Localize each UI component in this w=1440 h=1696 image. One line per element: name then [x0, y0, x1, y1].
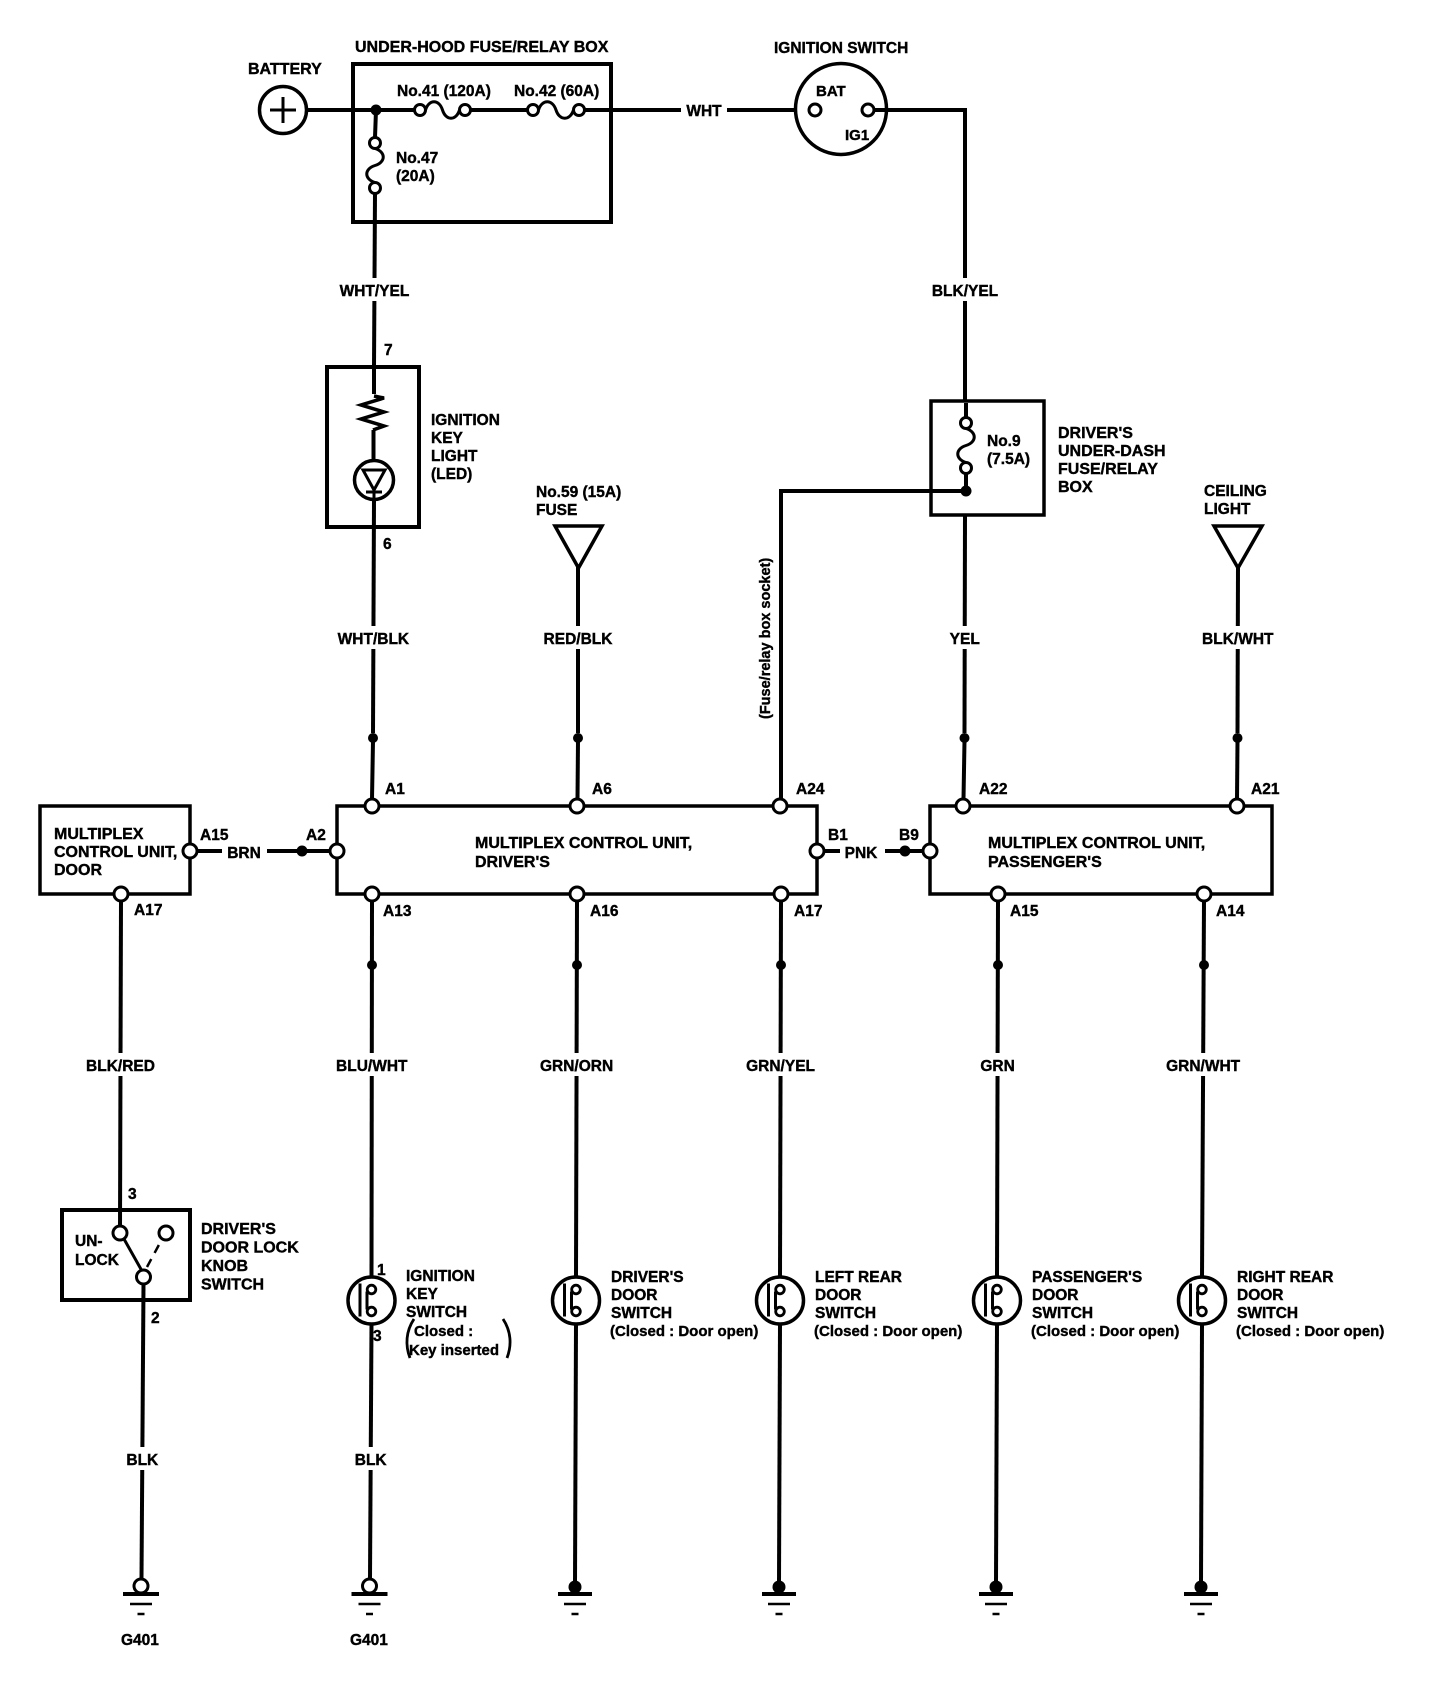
svg-text:A15: A15 — [1010, 903, 1039, 920]
svg-text:(Fuse/relay box socket): (Fuse/relay box socket) — [758, 558, 774, 719]
svg-text:BATTERY: BATTERY — [248, 61, 322, 78]
terminal A22 — [956, 781, 1007, 813]
svg-text:2: 2 — [151, 1310, 160, 1327]
svg-text:A17: A17 — [794, 903, 822, 920]
svg-text:IGNITION: IGNITION — [406, 1268, 475, 1285]
node on PNK wire — [900, 846, 911, 857]
svg-text:GRN: GRN — [980, 1058, 1014, 1075]
svg-text:(7.5A): (7.5A) — [987, 451, 1030, 468]
ignition key light box — [327, 342, 500, 527]
node on BRN wire — [297, 846, 308, 857]
node battery junction — [371, 105, 382, 116]
svg-text:A2: A2 — [306, 827, 326, 844]
node on RED/BLK wire — [573, 733, 583, 743]
ignition key switch — [348, 1262, 510, 1359]
ground (passenger's door switch) — [979, 1581, 1013, 1615]
svg-text:B9: B9 — [899, 827, 919, 844]
driver's door lock knob switch — [62, 1186, 299, 1327]
wire BLK (lock knob to ground) — [126, 1284, 159, 1578]
under-hood fuse/relay box — [353, 39, 611, 222]
svg-text:WHT: WHT — [686, 103, 722, 120]
LED (key light) — [355, 430, 394, 500]
svg-text:MULTIPLEX: MULTIPLEX — [54, 826, 144, 843]
svg-text:No.9: No.9 — [987, 433, 1021, 450]
fuse No.59 (15A) — [536, 484, 621, 568]
svg-text:KNOB: KNOB — [201, 1258, 248, 1275]
svg-text:A14: A14 — [1216, 903, 1245, 920]
svg-text:GRN/WHT: GRN/WHT — [1166, 1058, 1241, 1075]
wire BLK/RED — [86, 901, 155, 1227]
svg-text:DOOR: DOOR — [1032, 1287, 1079, 1304]
node on GRN/ORN wire — [572, 960, 582, 970]
svg-text:SWITCH: SWITCH — [1032, 1305, 1093, 1322]
ground G401 (key switch) — [350, 1579, 388, 1649]
node on GRN/YEL wire — [776, 960, 786, 970]
svg-text:CEILING: CEILING — [1204, 483, 1267, 500]
svg-text:6: 6 — [383, 536, 392, 553]
svg-text:G401: G401 — [121, 1632, 159, 1649]
terminal A17 (driver's) — [774, 887, 822, 920]
svg-text:GRN/ORN: GRN/ORN — [540, 1058, 613, 1075]
battery — [248, 61, 322, 134]
ground (left rear door switch) — [762, 1581, 796, 1615]
svg-text:WHT/BLK: WHT/BLK — [338, 631, 410, 648]
svg-text:KEY: KEY — [431, 430, 464, 447]
svg-text:(Closed : Door open): (Closed : Door open) — [1236, 1323, 1384, 1340]
svg-text:IGNITION SWITCH: IGNITION SWITCH — [774, 40, 908, 57]
svg-text:No.41 (120A): No.41 (120A) — [397, 83, 491, 100]
svg-text:FUSE/RELAY: FUSE/RELAY — [1058, 461, 1158, 478]
svg-text:A22: A22 — [979, 781, 1007, 798]
terminal A17 (door unit) — [114, 887, 162, 919]
svg-text:BLK: BLK — [126, 1452, 159, 1469]
fuse No.42 (60A) — [514, 83, 599, 118]
svg-text:(Closed : Door open): (Closed : Door open) — [1031, 1323, 1179, 1340]
terminal A13 — [365, 887, 412, 920]
svg-text:SWITCH: SWITCH — [815, 1305, 876, 1322]
svg-text:MULTIPLEX CONTROL UNIT,: MULTIPLEX CONTROL UNIT, — [475, 835, 692, 852]
wire BRN — [197, 845, 330, 862]
svg-text:DOOR: DOOR — [611, 1287, 658, 1304]
svg-text:GRN/YEL: GRN/YEL — [746, 1058, 815, 1075]
wire GRN/ORN — [540, 901, 613, 1277]
wire BLK/YEL — [874, 108, 998, 401]
fuse No.9 (7.5A) — [958, 403, 1030, 474]
wire GRN/YEL — [746, 901, 815, 1277]
wire WHT — [585, 103, 810, 120]
svg-text:A24: A24 — [796, 781, 825, 798]
svg-text:WHT/YEL: WHT/YEL — [340, 283, 410, 300]
svg-text:UNDER-HOOD FUSE/RELAY BOX: UNDER-HOOD FUSE/RELAY BOX — [355, 39, 609, 56]
svg-text:LIGHT: LIGHT — [1204, 501, 1251, 518]
svg-text:DRIVER'S: DRIVER'S — [475, 854, 550, 871]
svg-text:A17: A17 — [134, 902, 162, 919]
ground (right rear door switch) — [1184, 1581, 1218, 1615]
svg-text:YEL: YEL — [950, 631, 980, 648]
svg-text:A1: A1 — [385, 781, 405, 798]
node on BLK/WHT wire — [1233, 733, 1243, 743]
svg-text:LEFT REAR: LEFT REAR — [815, 1269, 902, 1286]
terminal A1 — [365, 781, 405, 813]
wire YEL — [950, 515, 980, 799]
svg-text:A21: A21 — [1251, 781, 1280, 798]
svg-text:DOOR: DOOR — [1237, 1287, 1284, 1304]
svg-text:G401: G401 — [350, 1632, 388, 1649]
wire WHT/BLK — [338, 500, 410, 800]
svg-text:MULTIPLEX CONTROL UNIT,: MULTIPLEX CONTROL UNIT, — [988, 835, 1205, 852]
svg-text:(LED): (LED) — [431, 466, 472, 483]
svg-text:FUSE: FUSE — [536, 502, 577, 519]
svg-text:DOOR LOCK: DOOR LOCK — [201, 1240, 299, 1257]
terminal A15 (passenger's) — [991, 887, 1039, 920]
fuse No.41 (120A) — [397, 83, 491, 118]
svg-text:A16: A16 — [590, 903, 619, 920]
terminal A2 — [306, 827, 344, 858]
svg-text:BLK: BLK — [355, 1452, 388, 1469]
svg-text:BAT: BAT — [816, 83, 846, 100]
svg-text:LIGHT: LIGHT — [431, 448, 478, 465]
svg-text:BLK/YEL: BLK/YEL — [932, 283, 998, 300]
wire — [471, 108, 528, 112]
svg-text:No.42 (60A): No.42 (60A) — [514, 83, 599, 100]
wire BLU/WHT — [336, 901, 408, 1277]
svg-text:KEY: KEY — [406, 1286, 439, 1303]
ground (driver's door switch) — [558, 1581, 592, 1615]
svg-text:A15: A15 — [200, 827, 229, 844]
svg-text:DOOR: DOOR — [815, 1287, 862, 1304]
passenger's door switch — [974, 1269, 1180, 1340]
node on YEL wire — [960, 733, 970, 743]
terminal A21 — [1230, 781, 1280, 813]
svg-text:BLK/RED: BLK/RED — [86, 1058, 155, 1075]
left rear door switch — [757, 1269, 963, 1340]
node fuse box socket junction — [961, 474, 972, 497]
wire PNK — [824, 845, 923, 862]
svg-text:3: 3 — [373, 1328, 382, 1345]
resistor (key light) — [361, 367, 384, 430]
wire GRN/WHT — [1166, 901, 1241, 1277]
ground G401 (lock knob) — [121, 1579, 159, 1649]
terminal A6 — [570, 781, 612, 813]
svg-text:DRIVER'S: DRIVER'S — [1058, 425, 1133, 442]
svg-text:No.59 (15A): No.59 (15A) — [536, 484, 621, 501]
svg-text:7: 7 — [384, 342, 393, 359]
svg-text:UN-: UN- — [75, 1233, 103, 1250]
wire GRN/WHT switch to ground — [1201, 1324, 1202, 1582]
svg-text:(20A): (20A) — [396, 168, 435, 185]
svg-text:DRIVER'S: DRIVER'S — [611, 1269, 684, 1286]
terminal B9 — [899, 827, 937, 858]
terminal A16 — [570, 887, 619, 920]
svg-text:BOX: BOX — [1058, 479, 1093, 496]
svg-text:UNDER-DASH: UNDER-DASH — [1058, 443, 1166, 460]
svg-text:BLK/WHT: BLK/WHT — [1202, 631, 1274, 648]
svg-text:SWITCH: SWITCH — [1237, 1305, 1298, 1322]
multiplex control unit, driver's — [337, 806, 817, 894]
terminal A15 (door unit) — [183, 827, 229, 858]
svg-text:LOCK: LOCK — [75, 1252, 120, 1269]
wire BLK (key switch to ground) — [355, 1324, 388, 1578]
svg-text:Closed :: Closed : — [414, 1323, 473, 1340]
svg-text:SWITCH: SWITCH — [406, 1304, 467, 1321]
svg-text:SWITCH: SWITCH — [611, 1305, 672, 1322]
right rear door switch — [1179, 1269, 1385, 1340]
wire RED/BLK — [544, 566, 614, 799]
svg-text:DRIVER'S: DRIVER'S — [201, 1221, 276, 1238]
wire GRN — [980, 901, 1014, 1277]
svg-text:3: 3 — [128, 1186, 137, 1203]
svg-text:RIGHT REAR: RIGHT REAR — [1237, 1269, 1333, 1286]
wire GRN/ORN switch to ground — [575, 1324, 576, 1582]
svg-text:PNK: PNK — [845, 845, 879, 862]
svg-text:No.47: No.47 — [396, 150, 438, 167]
driver's door switch — [553, 1269, 759, 1340]
ignition switch — [774, 40, 908, 155]
terminal A24 — [773, 781, 825, 813]
wire WHT/YEL — [340, 194, 410, 368]
svg-text:BRN: BRN — [227, 845, 261, 862]
svg-text:(Closed : Door open): (Closed : Door open) — [610, 1323, 758, 1340]
ceiling light — [1204, 483, 1267, 568]
wire battery to fuse box — [307, 108, 415, 112]
multiplex control unit, passenger's — [930, 806, 1272, 894]
fuse No.47 (20A) — [367, 110, 438, 194]
svg-text:(Closed : Door open): (Closed : Door open) — [814, 1323, 962, 1340]
multiplex control unit, door — [40, 806, 190, 894]
node on BLU/WHT wire — [367, 960, 377, 970]
svg-text:PASSENGER'S: PASSENGER'S — [1032, 1269, 1142, 1286]
node on WHT/BLK wire — [368, 733, 378, 743]
svg-text:IGNITION: IGNITION — [431, 412, 500, 429]
svg-text:CONTROL UNIT,: CONTROL UNIT, — [54, 844, 177, 861]
svg-text:BLU/WHT: BLU/WHT — [336, 1058, 408, 1075]
svg-text:DOOR: DOOR — [54, 862, 102, 879]
wire GRN switch to ground — [996, 1324, 997, 1582]
wire GRN/YEL switch to ground — [779, 1324, 780, 1582]
terminal B1 — [810, 827, 848, 858]
wire fuse/relay box socket — [758, 489, 966, 799]
node on GRN wire — [993, 960, 1003, 970]
svg-text:PASSENGER'S: PASSENGER'S — [988, 854, 1102, 871]
svg-text:B1: B1 — [828, 827, 848, 844]
svg-text:RED/BLK: RED/BLK — [544, 631, 614, 648]
svg-text:A6: A6 — [592, 781, 612, 798]
wire BLK/WHT — [1202, 566, 1274, 799]
svg-text:SWITCH: SWITCH — [201, 1277, 264, 1294]
svg-text:IG1: IG1 — [845, 127, 869, 144]
terminal A14 — [1197, 887, 1245, 920]
svg-text:A13: A13 — [383, 903, 412, 920]
driver's under-dash fuse/relay box — [931, 401, 1166, 515]
svg-text:Key inserted: Key inserted — [409, 1342, 499, 1359]
node on GRN/WHT wire — [1199, 960, 1209, 970]
